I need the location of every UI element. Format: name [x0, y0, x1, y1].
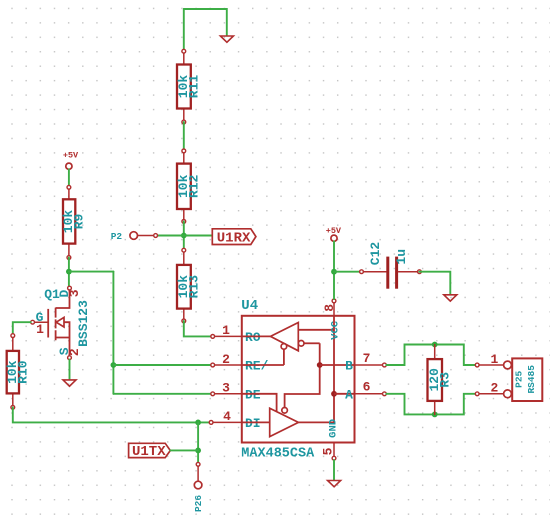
wire pin6 to P25 pin2: [386, 394, 475, 415]
ground C12: [444, 295, 457, 301]
wire R11 to R12: [183, 122, 185, 151]
svg-text:2: 2: [490, 381, 498, 396]
resistor R11: [176, 49, 202, 124]
svg-text:GND: GND: [327, 419, 339, 438]
wire P2 to U1RX: [156, 235, 213, 237]
pin 1 RO: [211, 323, 261, 345]
wire RE/DE column vertical: [112, 272, 114, 394]
DE internal line: [242, 394, 277, 412]
pin 5 GND: [320, 443, 336, 461]
junction internal B: [317, 362, 323, 368]
receiver enable bubble: [281, 344, 287, 365]
svg-text:P2: P2: [111, 231, 123, 242]
svg-text:8: 8: [322, 304, 337, 312]
ground U4: [328, 481, 341, 487]
svg-text:A: A: [345, 387, 353, 402]
svg-text:U1TX: U1TX: [132, 444, 166, 460]
resistor R9: [61, 185, 86, 259]
transistor Q1: [31, 286, 92, 359]
connector P26: [193, 462, 204, 512]
wire C12 to ground: [419, 272, 450, 295]
svg-text:2: 2: [222, 352, 230, 367]
label U1TX: [129, 443, 171, 460]
svg-text:P26: P26: [193, 495, 204, 512]
svg-text:1: 1: [222, 323, 230, 338]
junction R3 top: [432, 342, 438, 348]
svg-text:5: 5: [320, 447, 335, 455]
pin 6 A: [355, 380, 387, 396]
wire to pin2 RE: [113, 364, 210, 366]
wire U1TX to junction: [170, 449, 198, 451]
receiver non-inverting input: [298, 329, 334, 331]
resistor R3: [427, 345, 453, 415]
svg-text:R9: R9: [71, 214, 86, 230]
ground Q1 source: [63, 380, 76, 386]
wire R13 to pin1 RO: [184, 321, 211, 337]
junction R3 bottom: [432, 412, 438, 418]
svg-text:U1RX: U1RX: [217, 230, 251, 246]
internal B net: [285, 343, 320, 407]
internal A row to pin: [334, 393, 355, 395]
wire to C12: [334, 271, 360, 273]
capacitor C12: [360, 242, 422, 289]
svg-text:3: 3: [222, 381, 230, 396]
label U1RX: [212, 229, 256, 247]
pin 7 B: [355, 351, 387, 367]
svg-text:RO: RO: [245, 330, 261, 345]
resistor R10: [5, 334, 30, 409]
driver triangle U4: [242, 408, 299, 436]
svg-text:DI: DI: [245, 416, 261, 431]
wire pin5 to ground: [333, 460, 335, 480]
svg-text:6: 6: [363, 380, 371, 395]
svg-text:B: B: [345, 359, 353, 374]
internal A net vertical: [298, 316, 334, 423]
svg-text:C12: C12: [368, 242, 383, 266]
svg-text:1: 1: [490, 352, 498, 367]
svg-text:RS485: RS485: [526, 365, 537, 394]
svg-text:BSS123: BSS123: [76, 300, 91, 347]
power +5V at C12: [326, 226, 342, 241]
ground top: [220, 36, 233, 42]
junction C12 node: [331, 269, 337, 275]
receiver internal RE line: [242, 364, 284, 366]
wire R12 to R13: [183, 221, 185, 250]
resistor R13: [176, 248, 202, 322]
pin 3 DE: [211, 381, 261, 403]
svg-text:3: 3: [67, 289, 82, 297]
svg-text:1u: 1u: [394, 249, 409, 265]
junction U1TX: [195, 448, 201, 454]
svg-text:1: 1: [36, 322, 44, 337]
svg-text:VCC: VCC: [329, 320, 341, 340]
wire DI junction down: [197, 422, 199, 462]
wire R10 to DI row: [13, 407, 210, 422]
wire +5V to pin8: [333, 241, 335, 299]
power +5V at R9: [63, 151, 79, 170]
svg-text:P25: P25: [513, 370, 524, 387]
wire gate to R10: [13, 322, 31, 335]
svg-text:R12: R12: [187, 174, 202, 198]
wire to pin3 DE: [113, 393, 210, 395]
receiver inverting input bubble: [298, 341, 319, 347]
junction R9 node: [66, 269, 72, 275]
junction RE column: [111, 362, 117, 368]
svg-text:MAX485CSA: MAX485CSA: [241, 447, 315, 462]
pin 4 DI: [209, 409, 260, 431]
junction DI row: [195, 420, 201, 426]
svg-text:2: 2: [67, 348, 82, 356]
svg-text:4: 4: [223, 409, 231, 424]
driver enable bubble: [282, 408, 288, 414]
wire +5V to R9: [68, 169, 70, 187]
svg-text:R3: R3: [438, 372, 453, 388]
svg-text:R13: R13: [187, 275, 202, 299]
junction node U1RX: [181, 233, 187, 239]
svg-text:RE/: RE/: [245, 359, 269, 374]
op-amp U4 MAX485CSA box: [241, 298, 354, 462]
wire R9 to Q1 drain: [68, 258, 70, 287]
wire top horizontal to ground: [184, 9, 227, 35]
svg-text:R11: R11: [187, 75, 202, 99]
resistor R12: [176, 149, 202, 223]
connector P2: [111, 231, 158, 242]
wire pin7 to P25 pin1: [386, 345, 475, 366]
wire Q1 source to ground: [69, 360, 71, 379]
wire R9 node to RE/DE column: [69, 271, 114, 273]
pin 2 RE/: [211, 352, 269, 374]
junction internal A: [331, 391, 337, 397]
svg-text:U4: U4: [241, 298, 258, 314]
svg-text:R10: R10: [15, 360, 30, 384]
internal B row to pin: [320, 364, 355, 366]
wire R11 top: [183, 9, 185, 51]
svg-text:DE: DE: [245, 387, 261, 402]
svg-text:7: 7: [363, 351, 371, 366]
receiver triangle U4: [242, 323, 298, 351]
connector P25 RS485: [475, 352, 542, 401]
pin 8 VCC: [322, 299, 337, 316]
svg-text:+5V: +5V: [63, 151, 79, 161]
